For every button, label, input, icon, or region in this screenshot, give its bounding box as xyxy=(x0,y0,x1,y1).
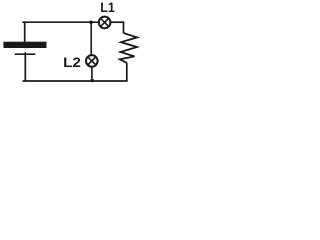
battery positive plate (long thick bar) xyxy=(3,42,46,48)
wire resistor top lead vertical xyxy=(123,22,125,33)
wire resistor bottom lead vertical xyxy=(126,63,128,81)
svg-text:L1: L1 xyxy=(100,0,115,15)
wire from lamp L2 bottom to bottom junction xyxy=(91,66,93,81)
wire from lamp L1 right to resistor top corner xyxy=(111,21,125,23)
lamp L2 xyxy=(86,55,98,67)
svg-text:L2: L2 xyxy=(63,54,81,70)
wire bottom horizontal xyxy=(23,80,128,82)
resistor R1 zigzag xyxy=(120,33,137,63)
wire top horizontal from battery to lamp L1 xyxy=(22,21,98,23)
node junction dot bottom xyxy=(90,79,94,83)
wire left vertical battery positive lead xyxy=(24,21,26,41)
node junction dot top xyxy=(89,21,93,25)
lamp L1 xyxy=(99,17,111,29)
wire vertical from top junction to lamp L2 xyxy=(90,22,92,55)
battery negative plate (short thin bar) xyxy=(15,53,36,55)
wire battery negative lead vertical xyxy=(24,52,26,81)
